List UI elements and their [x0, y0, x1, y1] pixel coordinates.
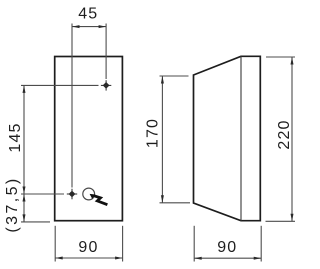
arrow top of 145	[23, 85, 26, 93]
lightning arrowhead	[90, 194, 96, 199]
dimension (37,5) extension line bottom	[21, 221, 50, 223]
svg-text:145: 145	[7, 122, 24, 152]
side view inner edge	[240, 56, 242, 220]
dimension 45 line	[72, 26, 106, 28]
bottom 90 left: dimension line	[55, 257, 122, 259]
lightning arrow	[94, 196, 108, 205]
svg-text:170: 170	[145, 118, 162, 148]
cable entry circle	[83, 188, 95, 200]
dimension 45 extension line left (hole2 x)	[71, 24, 73, 188]
bottom 90 right: extension lines	[193, 226, 195, 262]
svg-text:45: 45	[78, 6, 98, 23]
arrow right of 45	[99, 25, 107, 28]
svg-text:90: 90	[78, 239, 98, 256]
dimension 145 extension line top (hole1 y)	[21, 84, 99, 86]
arrow bottom of (37,5)	[23, 214, 26, 222]
dimension (37,5) line	[23, 194, 25, 222]
arrow left of 45	[72, 25, 80, 28]
svg-text:220: 220	[276, 119, 293, 149]
dimension 145 line	[23, 85, 25, 194]
svg-text:(37,5): (37,5)	[4, 176, 21, 232]
arrow top of (37,5)	[23, 194, 26, 202]
hole marker 2	[67, 189, 77, 199]
dimension 220 line	[291, 57, 293, 221]
dimension 45 extension line right (hole1 x)	[105, 24, 107, 80]
dimension (37,5) extension line mid (hole2 y)	[21, 193, 64, 195]
dimension 170 line	[161, 76, 163, 203]
dimension 220 extension top	[266, 56, 295, 58]
hole marker 1	[101, 80, 111, 90]
bottom 90 right: dimension line	[194, 257, 261, 259]
dimension 220 extension bottom	[266, 220, 296, 222]
bottom 90 left: extension lines	[54, 226, 56, 262]
dimension 170 extension top	[160, 75, 189, 77]
dimension 170 extension bottom	[160, 202, 191, 204]
side view outline	[194, 56, 261, 220]
arrow bottom of 145	[23, 187, 26, 195]
svg-text:90: 90	[217, 239, 237, 256]
front view outline	[55, 57, 123, 221]
